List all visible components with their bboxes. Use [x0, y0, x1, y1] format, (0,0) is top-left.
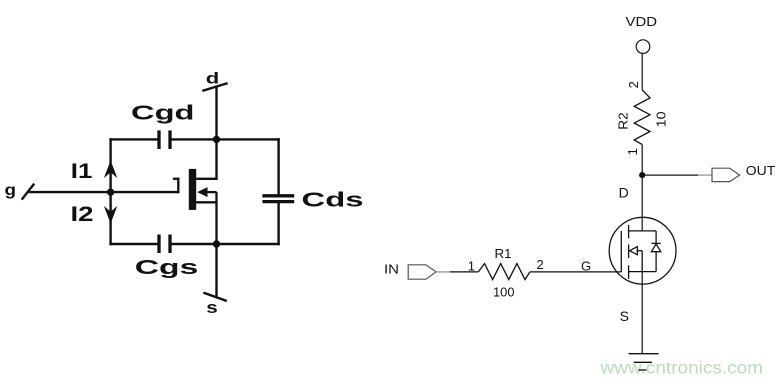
terminal g slash: [22, 185, 33, 199]
wire stub gray from IN flag: [436, 271, 450, 273]
current arrow I2 (down): [104, 206, 117, 224]
terminal d wire: [215, 87, 217, 179]
svg-text:Cds: Cds: [302, 190, 364, 212]
resistor R1: [478, 264, 530, 280]
node dot top rail junction: [213, 136, 220, 143]
drain horizontal lead: [629, 230, 657, 232]
channel dash bottom: [628, 265, 630, 279]
wire R1 to gate G: [530, 271, 621, 273]
wire node D to OUT: [642, 174, 698, 176]
gate plate vertical: [620, 231, 622, 272]
svg-text:D: D: [619, 185, 629, 201]
source horizontal lead: [629, 271, 657, 273]
body arrow lead: [204, 191, 217, 193]
wire VDD to R2: [641, 54, 643, 90]
transistor M1 circle: [609, 217, 676, 284]
body arrow head: [630, 247, 638, 255]
svg-text:R2: R2: [615, 112, 630, 130]
body arrow head: [197, 187, 207, 197]
wire bottom rail left: [111, 243, 158, 245]
capacitor Cgd: [159, 130, 170, 149]
body diode branch lower: [655, 252, 657, 272]
terminal d slash: [204, 84, 227, 91]
wire left vertical: [109, 139, 111, 244]
svg-text:I1: I1: [71, 160, 93, 183]
terminal s slash: [205, 293, 226, 301]
wire top rail right: [171, 138, 279, 140]
svg-text:I2: I2: [71, 203, 94, 226]
transistor M1 internals: [621, 225, 661, 279]
svg-text:OUT: OUT: [746, 163, 776, 178]
svg-text:G: G: [581, 258, 591, 273]
wire R2 to node D and MOSFET drain: [641, 145, 643, 231]
wire stub gray to OUT flag: [698, 174, 712, 176]
body diode triangle: [651, 244, 660, 252]
drain lead: [196, 178, 216, 180]
channel dash top: [628, 225, 630, 238]
wire IN to R1: [450, 271, 479, 273]
gate plate hook: [174, 179, 178, 192]
channel bar: [189, 169, 196, 210]
wire bottom rail right: [171, 243, 279, 245]
svg-text:R1: R1: [495, 246, 512, 261]
body diode branch upper: [655, 231, 657, 244]
channel dash middle: [628, 244, 630, 258]
power terminal VDD circle: [636, 40, 650, 54]
svg-text:Cgd: Cgd: [131, 103, 195, 125]
body tie vertical: [641, 251, 643, 272]
svg-text:1: 1: [468, 259, 475, 274]
svg-text:d: d: [206, 71, 220, 88]
body diode cathode bar: [651, 242, 660, 244]
wire right vertical upper (to Cds): [277, 139, 279, 195]
svg-text:100: 100: [493, 285, 515, 300]
capacitor Cgs: [159, 235, 170, 254]
body arrow tail: [637, 250, 643, 252]
resistor R2: [634, 90, 650, 145]
terminal flag IN: [408, 265, 436, 279]
svg-text:2: 2: [626, 81, 641, 88]
current arrow I1 (up): [104, 161, 117, 179]
svg-text:2: 2: [537, 257, 544, 272]
svg-text:1: 1: [625, 148, 640, 155]
svg-text:S: S: [620, 308, 629, 324]
svg-text:VDD: VDD: [626, 14, 658, 29]
wire top rail left: [111, 138, 158, 140]
ground: [629, 354, 659, 370]
node dot gate junction: [107, 188, 114, 195]
node dot D: [639, 172, 645, 178]
svg-text:Cgs: Cgs: [135, 257, 199, 279]
svg-text:www.cntronics.com: www.cntronics.com: [599, 358, 763, 378]
svg-text:IN: IN: [384, 262, 399, 277]
capacitor Cds: [262, 196, 294, 202]
transistor Q1 (MOSFET symbol, left model): [174, 169, 217, 244]
node dot bottom rail junction: [213, 240, 220, 247]
terminal s wire: [215, 244, 217, 296]
svg-text:10: 10: [653, 111, 668, 127]
wire source to ground: [641, 272, 643, 354]
wire gate horizontal g to gate: [30, 191, 178, 193]
source lead: [196, 201, 216, 203]
svg-text:g: g: [5, 182, 17, 199]
svg-text:s: s: [206, 298, 218, 317]
terminal flag OUT: [712, 168, 740, 181]
source vertical to bottom rail: [215, 192, 217, 244]
wire right vertical lower (from Cds): [277, 202, 279, 244]
